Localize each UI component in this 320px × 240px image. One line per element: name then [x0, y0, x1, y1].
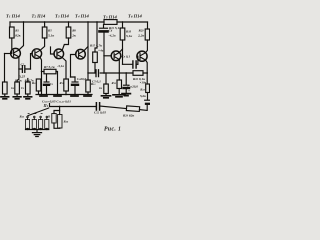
- wire T2 emitter down: [40, 57, 41, 94]
- wire T5 emitter down: [118, 59, 120, 80]
- wire R1 bottom to T1 base node: [11, 38, 13, 54]
- ground under C13: [122, 94, 130, 96]
- svg-text:R26: R26: [64, 120, 69, 124]
- wire T6 emitter down: [146, 60, 148, 73]
- resistor R2: [3, 82, 8, 94]
- wire top supply bus: [10, 21, 148, 23]
- transistor T2: [32, 49, 42, 59]
- svg-text:R18: R18: [126, 30, 132, 34]
- resistor R7 horizontal: [42, 71, 45, 73]
- svg-text:Т5 П14: Т5 П14: [103, 15, 118, 20]
- svg-text:С1320,0: С1320,0: [128, 84, 139, 88]
- wire T4 collector node down: [87, 47, 89, 81]
- wire T5 collector node down to C8: [122, 49, 124, 64]
- ground under R4: [16, 94, 18, 96]
- wire T3 base feed: [51, 47, 55, 54]
- capacitor C4 electrolytic: [74, 77, 76, 95]
- switch P1 pivot tick: [49, 104, 51, 107]
- svg-text:П1: П1: [43, 103, 49, 108]
- resistor R21 (series in bus): [104, 20, 117, 25]
- resistor R20 (T6 collector): [145, 29, 149, 40]
- bottom rail left part: [50, 106, 96, 108]
- capacitor C12 (series in rail): [96, 103, 99, 110]
- svg-text:Т4 П14: Т4 П14: [75, 14, 90, 19]
- svg-text:Т3 П14: Т3 П14: [55, 14, 70, 19]
- junction dots: [23, 21, 148, 107]
- svg-text:С8 0,1: С8 0,1: [122, 55, 131, 59]
- svg-text:+4в: +4в: [98, 49, 104, 53]
- battery B1: [145, 99, 150, 101]
- wire y73 feedback line: [104, 72, 147, 74]
- ground under R17: [102, 96, 111, 98]
- capacitor C2: [19, 68, 31, 70]
- wire battery to bottom rail: [146, 105, 148, 110]
- svg-text:5,1к: 5,1к: [48, 34, 54, 38]
- svg-text:+: +: [128, 89, 130, 93]
- ground rail mid section: [36, 94, 92, 96]
- svg-text:Рис. 1: Рис. 1: [104, 127, 121, 133]
- transistor T5: [111, 51, 121, 61]
- wire R9 to T3 collector: [62, 38, 68, 51]
- ground under R19: [113, 95, 125, 97]
- wire base node down to R2: [4, 54, 6, 83]
- resistor R6 lower: [36, 79, 41, 91]
- svg-text:R7 5,1к: R7 5,1к: [44, 65, 55, 69]
- switch P1 arm: [28, 108, 49, 116]
- transistor T4: [76, 49, 86, 59]
- svg-text:-4,2в: -4,2в: [109, 34, 117, 38]
- wire bus right corner down to R20: [147, 22, 149, 29]
- svg-text:R23: R23: [140, 88, 145, 92]
- svg-text:R21к: R21к: [15, 79, 22, 83]
- resistor R15: [93, 52, 98, 63]
- resistor R5 (T2 collector load): [42, 27, 47, 38]
- resistor R4 (T1 lower): [15, 82, 20, 94]
- capacitor C3 electrolytic: [46, 74, 48, 95]
- svg-text:5,6к: 5,6к: [140, 94, 146, 98]
- svg-text:-3,1в: -3,1в: [57, 64, 65, 68]
- transistor T6: [137, 51, 147, 61]
- svg-text:2,2к: 2,2к: [137, 34, 144, 38]
- wire T6 emitter node down: [146, 73, 148, 84]
- svg-text:Т2 П14: Т2 П14: [32, 14, 47, 19]
- resistor R24 horizontal: [126, 106, 139, 112]
- svg-text:С12 0,05: С12 0,05: [94, 111, 106, 115]
- ground under R2: [4, 94, 6, 96]
- svg-text:С5 0,1: С5 0,1: [92, 80, 101, 84]
- wire bus left corner down to R1: [9, 22, 11, 27]
- transistor T1: [11, 48, 21, 58]
- resistor R10 lower: [64, 79, 69, 91]
- resistor R18 (T5 collector load): [120, 28, 125, 40]
- bottom rail right part: [100, 106, 147, 110]
- wire R5 to T2 collector: [40, 38, 45, 50]
- wire T4 base divider: [71, 55, 76, 78]
- resistor R3 lower: [26, 82, 31, 94]
- switch contacts: [27, 116, 29, 118]
- svg-text:1к: 1к: [11, 86, 15, 90]
- resistor bank under switch: [28, 118, 47, 120]
- svg-text:×10в: ×10в: [140, 81, 147, 85]
- transistor T3: [54, 49, 64, 59]
- resistor RB: [59, 107, 61, 115]
- wire T3 emitter down: [62, 57, 66, 79]
- wire block bottoms: [54, 123, 60, 128]
- svg-text:2к: 2к: [71, 34, 76, 38]
- wire R18 to T5 collector: [119, 40, 122, 53]
- capacitor C8: [123, 63, 138, 65]
- wire T1 emitter down: [17, 57, 19, 82]
- wire bank bottoms: [28, 129, 47, 130]
- svg-text:82к: 82к: [15, 34, 21, 38]
- resistor R22 (series horizontal): [133, 71, 143, 76]
- svg-text:Т6 П14: Т6 П14: [128, 14, 143, 19]
- svg-text:С420,0: С420,0: [77, 77, 87, 81]
- wire bus drop for R15: [95, 22, 97, 52]
- phones block: resistor RA: [54, 111, 60, 114]
- capacitor C5: [88, 72, 104, 74]
- svg-text:1к: 1к: [99, 86, 103, 90]
- wire T4 collector up to bus: [84, 22, 88, 51]
- resistor R23: [146, 84, 150, 93]
- capacitor C6 electrolytic (under bus): [103, 25, 105, 28]
- svg-text:5,1к: 5,1к: [126, 34, 132, 38]
- ground bar marks on mid rail: [40, 95, 91, 97]
- resistor R13 (in T4 drop): [86, 80, 91, 92]
- resistor R19: [117, 80, 122, 89]
- resistor R9 (T3 collector load): [66, 27, 71, 38]
- ground under R3: [27, 94, 29, 96]
- contact tick labels: [28, 113, 42, 115]
- svg-text:R24 62к: R24 62к: [123, 114, 134, 118]
- svg-text:Т1 П14: Т1 П14: [6, 14, 21, 19]
- wire T1 base left: [5, 53, 11, 55]
- svg-text:R15 4,7к: R15 4,7к: [90, 44, 102, 48]
- wire C8 to T6 base: [136, 56, 139, 64]
- svg-text:R25: R25: [20, 115, 25, 119]
- ground under switch bank: [36, 130, 38, 133]
- capacitor C13 electrolytic: [125, 73, 127, 93]
- wire C6 down to T5 base: [103, 33, 105, 73]
- wire T1 collector up: [19, 22, 24, 50]
- resistor R17 lower: [104, 84, 109, 94]
- wire C2 to T2 base: [31, 54, 33, 69]
- resistor R1: [10, 27, 15, 38]
- svg-text:С9,10-0,05 С11,12-0,01: С9,10-0,05 С11,12-0,01: [42, 100, 71, 104]
- svg-text:R20: R20: [139, 29, 145, 33]
